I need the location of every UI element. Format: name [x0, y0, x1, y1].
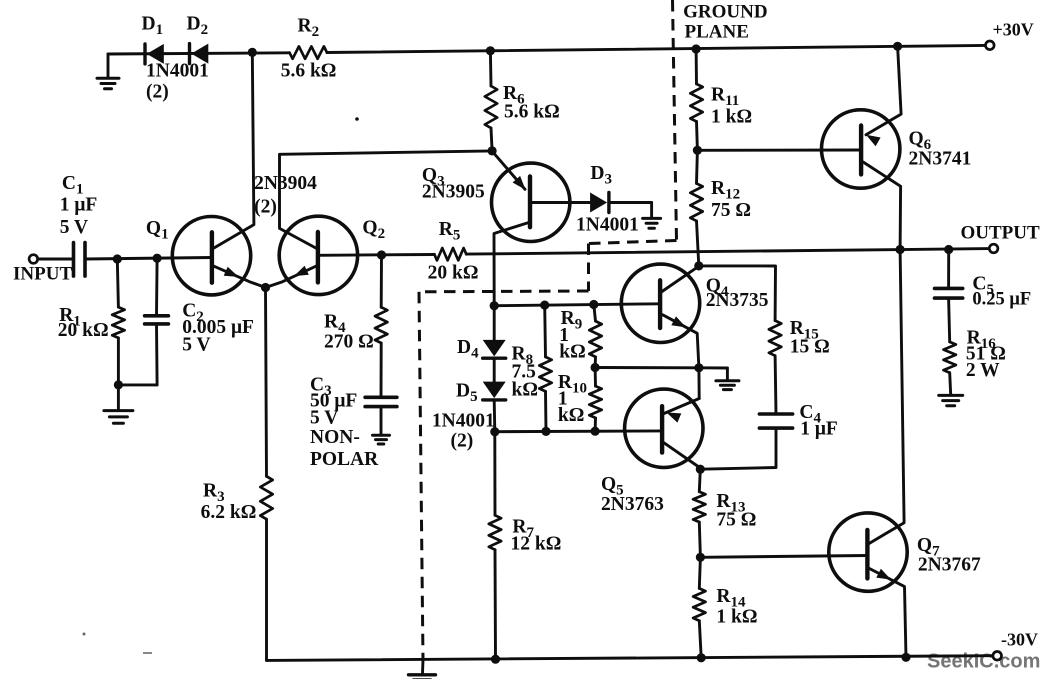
svg-text:2N3763: 2N3763	[601, 494, 664, 515]
node bottom rail / Q7 emitter	[901, 653, 910, 662]
label Q4	[706, 276, 729, 301]
label Q1	[146, 218, 169, 243]
transistor Q4	[621, 264, 699, 342]
wire Q1 emitter	[213, 266, 265, 288]
label Q5	[601, 474, 624, 499]
svg-text:5 V: 5 V	[310, 408, 338, 429]
wire C1 to Q1 base	[85, 258, 212, 260]
svg-text:2N3735: 2N3735	[706, 290, 769, 311]
svg-text:(2): (2)	[254, 197, 277, 218]
transistor Q5	[625, 389, 703, 467]
wire Q7 collector	[870, 250, 905, 544]
label C1	[62, 173, 84, 198]
label 5 V C1	[60, 217, 88, 238]
resistor R5	[434, 248, 466, 260]
transistor Q3	[492, 163, 570, 241]
capacitor C3	[365, 397, 397, 406]
label D2	[187, 14, 209, 39]
capacitor C4	[759, 414, 792, 428]
diode D4	[483, 306, 506, 359]
node bias top / D4-D5 column	[490, 301, 499, 310]
resistor R4	[375, 255, 387, 397]
label 2N3741	[909, 149, 972, 170]
label 12 kOhm R7	[511, 534, 562, 555]
label D4	[457, 337, 479, 362]
svg-text:2N3904: 2N3904	[254, 173, 317, 194]
transistor Q2	[279, 216, 357, 294]
wire Q6 base	[697, 149, 861, 152]
label R2	[298, 16, 320, 41]
wire Q5 collector	[664, 443, 701, 468]
node top rail / R6	[486, 46, 495, 55]
label 6.2 kOhm R3	[201, 502, 257, 523]
label 1 kOhm R14	[716, 607, 757, 628]
node bias top / R9	[589, 300, 598, 309]
capacitor C2	[145, 258, 169, 385]
svg-text:270 Ω: 270 Ω	[324, 332, 374, 353]
wire Q3 emitter	[492, 151, 525, 190]
svg-text:PLANE: PLANE	[685, 22, 749, 43]
wire Q2 emitter	[266, 266, 317, 288]
svg-text:2 W: 2 W	[966, 360, 1000, 381]
node top rail / R11	[692, 44, 701, 53]
svg-text:OUTPUT: OUTPUT	[961, 223, 1041, 244]
capacitor C1	[74, 243, 86, 277]
svg-text:NON-: NON-	[310, 427, 360, 448]
label 5.6 kOhm R6	[504, 102, 560, 123]
svg-text:2N3741: 2N3741	[909, 149, 972, 170]
label 5 V C2	[182, 335, 210, 356]
svg-text:20 kΩ: 20 kΩ	[58, 320, 109, 341]
wire Q2 collector riser	[280, 151, 493, 249]
label R4	[324, 312, 346, 337]
label C2	[182, 301, 204, 326]
label 15 Ohm R15	[790, 337, 830, 358]
svg-text:0.25 μF: 0.25 μF	[972, 290, 1031, 310]
node input/C2	[153, 254, 162, 263]
resistor R16	[944, 298, 956, 373]
node R13/R14/Q7 base	[696, 553, 705, 562]
node R1/C2 bottom	[114, 380, 123, 389]
svg-text:12 kΩ: 12 kΩ	[511, 534, 562, 555]
label 270 Ohm R4	[324, 332, 374, 353]
svg-text:SeekIC.com: SeekIC.com	[927, 651, 1040, 673]
wire C4 to Q5 collector node	[700, 428, 776, 469]
wire Q7 emitter	[868, 568, 906, 657]
svg-text:2N3905: 2N3905	[422, 182, 485, 203]
label R14	[716, 586, 746, 611]
svg-text:(2): (2)	[146, 82, 169, 103]
label +30V	[993, 20, 1034, 40]
label 75 Ohm R13	[716, 510, 756, 531]
label Q7	[917, 535, 940, 560]
label OUTPUT	[961, 223, 1041, 244]
label 2N3767	[918, 555, 981, 576]
svg-text:1 μF: 1 μF	[800, 419, 838, 440]
wire Q4 collector to R15	[699, 266, 776, 321]
label 5V C3	[310, 408, 338, 429]
capacitor C5	[935, 250, 963, 299]
wire Q4 collector	[661, 266, 699, 292]
node R11/R12/Q6 base	[693, 146, 702, 155]
transistor Q6	[822, 110, 900, 188]
wire Q3 base to D3	[530, 201, 591, 204]
node R6 bottom / Q3 emitter	[488, 146, 497, 155]
label R13	[716, 491, 745, 516]
label NON- C3	[310, 427, 360, 448]
wire output line	[466, 249, 989, 255]
label 2N3904 (2)	[254, 173, 317, 218]
resistor R10	[589, 368, 601, 432]
svg-text:(2): (2)	[451, 431, 474, 452]
svg-text:2N3767: 2N3767	[918, 555, 981, 576]
node Q5 collector / R13 / C4	[696, 465, 705, 474]
label R1	[59, 305, 81, 330]
label R11	[711, 85, 739, 110]
node Q2 base / R4 / R5	[377, 250, 386, 259]
resistor R6	[485, 51, 497, 151]
node bias top / R8	[540, 301, 549, 310]
node R9/R10 mid	[591, 363, 600, 372]
diode D3	[590, 193, 609, 213]
label 0.25 uF C5	[972, 290, 1031, 310]
wire -30V bottom rail	[267, 656, 993, 661]
label C5	[972, 274, 994, 299]
svg-text:POLAR: POLAR	[310, 449, 379, 470]
label 1N4001 D3	[576, 215, 639, 236]
svg-text:5 V: 5 V	[182, 335, 210, 356]
resistor R13	[693, 469, 705, 557]
resistor R1	[112, 259, 124, 385]
diode D1	[145, 44, 164, 64]
resistor R8	[539, 305, 551, 431]
wire Q4 emitter	[663, 315, 699, 368]
svg-text:75 Ω: 75 Ω	[711, 200, 751, 221]
node output / C5	[944, 245, 953, 254]
wire Q7 base	[700, 556, 867, 558]
svg-text:75 Ω: 75 Ω	[716, 510, 756, 531]
label 1N4001 (2) D4D5	[432, 411, 495, 452]
terminal OUTPUT	[989, 244, 998, 253]
resistor R14	[693, 557, 705, 658]
label R9	[559, 308, 585, 363]
resistor R15	[769, 321, 781, 356]
svg-text:1 μF: 1 μF	[60, 195, 98, 216]
label R3	[203, 481, 225, 506]
node input/R1	[113, 254, 122, 263]
svg-text:+30V: +30V	[993, 20, 1034, 40]
ground top-left	[97, 54, 119, 89]
svg-text:kΩ: kΩ	[558, 405, 584, 426]
node bias bottom / R8	[541, 427, 550, 436]
svg-text:5 V: 5 V	[60, 217, 88, 238]
ground emitters	[716, 381, 739, 390]
label C4	[799, 402, 821, 427]
label 51 Ohm R16	[966, 344, 1006, 365]
svg-text:5.6 kΩ: 5.6 kΩ	[281, 61, 337, 82]
label 50 uF C3	[310, 391, 357, 412]
label R10	[558, 372, 587, 426]
ground plane boundary (dashed)	[419, 0, 677, 660]
node top rail / Q6 emitter	[893, 42, 902, 51]
terminal -30V	[993, 652, 1002, 661]
label 75 Ohm R12	[711, 200, 751, 221]
resistor R2	[290, 46, 328, 58]
wire Q5 emitter	[664, 368, 699, 423]
wire emitters row to ground	[699, 368, 728, 380]
label 2 W R16	[966, 360, 1000, 381]
label 2N3735	[706, 290, 769, 311]
node bias bottom / R10	[591, 427, 600, 436]
ground C3	[373, 407, 390, 444]
ground plane bottom ground symbol	[409, 660, 436, 681]
node bottom rail / R7	[491, 655, 500, 664]
label 1 kOhm R11	[711, 107, 752, 128]
label GROUND PLANE	[683, 2, 767, 43]
label R16	[967, 328, 997, 353]
svg-text:1N4001: 1N4001	[576, 215, 639, 236]
resistor R9	[589, 305, 601, 368]
svg-text:INPUT: INPUT	[13, 264, 72, 285]
label C3	[310, 375, 332, 400]
wire C2 bottom to R1 bottom	[118, 383, 157, 386]
label 5.6 kOhm R2	[281, 61, 337, 82]
svg-text:kΩ: kΩ	[559, 342, 585, 363]
label 2N3905	[422, 182, 485, 203]
label 1 uF C1	[60, 195, 98, 216]
node output / Q6-Q7 column	[896, 245, 905, 254]
svg-text:5.6 kΩ: 5.6 kΩ	[504, 102, 560, 123]
resistor R3	[260, 288, 272, 661]
label R7	[512, 517, 534, 542]
svg-text:1 kΩ: 1 kΩ	[716, 607, 757, 628]
terminal +30V	[986, 41, 995, 50]
label R5	[439, 219, 461, 244]
svg-text:-30V: -30V	[1001, 630, 1038, 650]
node emitters mid	[694, 363, 703, 372]
resistor R12	[690, 150, 702, 266]
wire Q2 base to R5	[318, 253, 434, 257]
node bottom rail / R14	[697, 653, 706, 662]
diode D5	[483, 358, 506, 400]
wire Q3 collector	[494, 223, 529, 306]
node bias bottom / D5	[490, 427, 499, 436]
label -30V	[1001, 630, 1038, 650]
label D1	[142, 14, 164, 39]
node Q4 collector / R12 / R15	[694, 261, 703, 270]
label D3	[590, 163, 612, 188]
label R8	[512, 344, 538, 401]
speck	[83, 117, 359, 654]
label Q2	[362, 218, 385, 243]
terminal INPUT	[29, 255, 38, 264]
label POLAR C3	[310, 449, 379, 470]
label 1 uF C4	[800, 419, 838, 440]
watermark SeekIC.com	[927, 651, 1040, 673]
diode D2	[190, 44, 209, 64]
label R6	[503, 83, 525, 108]
ground R1	[104, 385, 133, 423]
label Q3	[422, 165, 445, 190]
transistor Q1	[172, 217, 250, 295]
svg-text:1 kΩ: 1 kΩ	[711, 107, 752, 128]
ground D3	[643, 218, 661, 228]
svg-text:1N4001: 1N4001	[432, 411, 495, 432]
svg-text:GROUND: GROUND	[683, 2, 767, 23]
label 20 kOhm R1	[58, 320, 109, 341]
label Q6	[909, 129, 932, 154]
wire bias top row	[494, 304, 660, 306]
label R15	[790, 318, 819, 343]
label 2N3763	[601, 494, 664, 515]
ground R16	[939, 373, 963, 406]
label INPUT	[13, 264, 72, 285]
label 0.005 uF C2	[182, 317, 254, 338]
wire Q1 collector riser	[213, 52, 254, 248]
wire D5 to bottom row	[493, 400, 496, 432]
svg-text:20 kΩ: 20 kΩ	[428, 263, 479, 284]
label R12	[711, 178, 740, 203]
label D5	[456, 381, 478, 406]
wire emitters row to R9R10	[595, 366, 699, 369]
wire Q6 collector	[863, 162, 901, 250]
svg-text:kΩ: kΩ	[512, 380, 538, 401]
label 1N4001 (2) top	[146, 61, 209, 103]
wire D3 to ground	[609, 203, 652, 218]
resistor R11	[690, 49, 702, 150]
wire input to C1	[38, 258, 74, 261]
svg-text:1N4001: 1N4001	[146, 61, 209, 82]
svg-text:15 Ω: 15 Ω	[790, 337, 830, 358]
wire R15 to C4	[774, 356, 778, 414]
wire bias bottom row	[495, 429, 662, 433]
transistor Q7	[829, 513, 907, 591]
resistor R7	[489, 432, 501, 660]
node common emitters	[261, 283, 270, 292]
wire Q6 emitter	[866, 46, 901, 146]
svg-text:6.2 kΩ: 6.2 kΩ	[201, 502, 257, 523]
wire +30V top rail	[108, 45, 985, 54]
node top rail / D2-R2 junction	[248, 48, 257, 57]
label 20 kOhm R5	[428, 263, 479, 284]
